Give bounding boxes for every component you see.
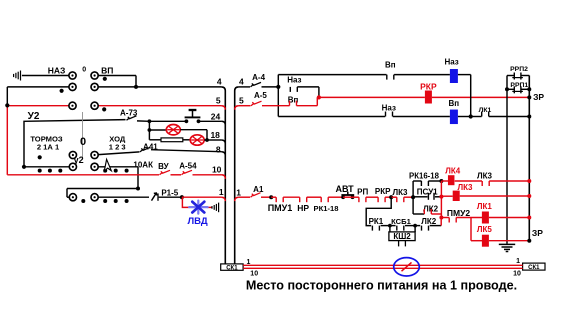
svg-text:24: 24 xyxy=(211,112,221,122)
svg-text:РК16-18: РК16-18 xyxy=(409,171,440,180)
svg-text:10: 10 xyxy=(212,165,222,175)
svg-text:А-5: А-5 xyxy=(254,91,267,100)
svg-text:ПМУ2: ПМУ2 xyxy=(447,208,470,218)
svg-text:А1: А1 xyxy=(253,185,264,194)
svg-text:КШ2: КШ2 xyxy=(393,232,411,241)
svg-text:НАЗ: НАЗ xyxy=(48,65,66,75)
svg-text:ЛК4: ЛК4 xyxy=(445,167,460,176)
svg-text:ЛК5: ЛК5 xyxy=(477,225,492,234)
svg-text:СК1: СК1 xyxy=(528,265,540,271)
svg-text:Вп: Вп xyxy=(448,99,459,108)
svg-text:РРП2: РРП2 xyxy=(510,66,528,73)
svg-text:ЛК3: ЛК3 xyxy=(458,183,473,192)
svg-text:ЛК3: ЛК3 xyxy=(477,171,492,180)
svg-text:А-4: А-4 xyxy=(252,73,265,82)
svg-text:18: 18 xyxy=(210,130,220,140)
svg-text:НР: НР xyxy=(297,203,309,213)
svg-text:ВП: ВП xyxy=(101,65,113,75)
svg-text:РКР: РКР xyxy=(420,81,437,91)
svg-text:4: 4 xyxy=(217,76,222,86)
svg-text:АВТ: АВТ xyxy=(336,184,355,194)
svg-text:10: 10 xyxy=(250,271,258,278)
svg-text:ЛК3: ЛК3 xyxy=(393,188,408,197)
svg-text:СК1: СК1 xyxy=(226,265,238,271)
svg-text:1 2 3: 1 2 3 xyxy=(109,142,126,151)
svg-text:1: 1 xyxy=(247,259,251,266)
svg-text:10АК: 10АК xyxy=(133,160,153,169)
svg-text:Наз: Наз xyxy=(287,76,301,85)
svg-text:10: 10 xyxy=(513,271,521,278)
svg-text:5: 5 xyxy=(239,96,244,106)
svg-text:8: 8 xyxy=(216,144,221,154)
svg-text:1: 1 xyxy=(236,187,241,197)
svg-text:РК1-18: РК1-18 xyxy=(314,204,339,213)
svg-text:0: 0 xyxy=(80,136,86,148)
svg-text:Наз: Наз xyxy=(382,103,396,112)
svg-text:РП: РП xyxy=(357,188,368,197)
svg-text:ЛК2: ЛК2 xyxy=(421,217,436,226)
svg-text:ЗР: ЗР xyxy=(533,92,544,102)
svg-text:1: 1 xyxy=(219,187,224,197)
svg-text:РРП1: РРП1 xyxy=(510,82,528,89)
svg-text:ПСУ1: ПСУ1 xyxy=(417,187,438,196)
svg-text:ЗР: ЗР xyxy=(532,228,543,238)
svg-text:ЛВД: ЛВД xyxy=(188,216,208,227)
svg-text:ПМУ1: ПМУ1 xyxy=(268,203,293,213)
svg-text:РК1: РК1 xyxy=(369,217,384,226)
svg-text:Р1-5: Р1-5 xyxy=(161,188,178,197)
svg-text:Наз: Наз xyxy=(444,57,458,66)
svg-text:5: 5 xyxy=(216,96,221,106)
svg-text:Место постороннего питания на: Место постороннего питания на 1 проводе. xyxy=(246,279,517,293)
svg-text:РКР: РКР xyxy=(375,187,391,196)
svg-text:4: 4 xyxy=(239,76,244,86)
svg-text:Вп: Вп xyxy=(385,60,396,69)
svg-text:1: 1 xyxy=(516,258,520,265)
svg-text:ЛК1: ЛК1 xyxy=(479,107,492,114)
svg-text:2 1А 1: 2 1А 1 xyxy=(37,143,60,152)
svg-text:А-54: А-54 xyxy=(179,162,197,171)
svg-text:0: 0 xyxy=(82,66,86,73)
svg-text:КСБ1: КСБ1 xyxy=(391,217,411,226)
svg-text:ВУ: ВУ xyxy=(158,162,169,171)
svg-text:ЛК1: ЛК1 xyxy=(477,202,492,211)
